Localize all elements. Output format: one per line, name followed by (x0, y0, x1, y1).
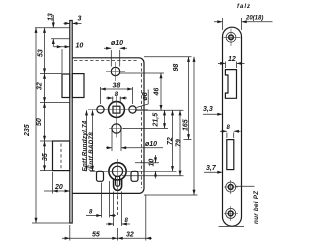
svg-text:10: 10 (76, 43, 84, 50)
follower centre lines (88, 96, 148, 134)
dimension 12 latch cutout (225, 62, 236, 69)
profile cylinder inner (112, 166, 122, 176)
svg-text:50: 50 (36, 118, 43, 126)
dimension chain line (44, 28, 46, 171)
strip top screw hole (226, 32, 236, 42)
profile cylinder outer (109, 163, 126, 180)
strip bottom hole (226, 208, 236, 218)
faceplate edge-on (front view) (70, 21, 72, 224)
extension case bottom right (144, 194, 198, 196)
deadbolt centre dashed line (60, 144, 62, 169)
fixing hole right (131, 171, 138, 181)
svg-text:79: 79 (175, 139, 182, 147)
dimension 35 (43, 141, 46, 146)
hidden edge below case top (dashed) (74, 60, 138, 62)
svg-text:32: 32 (126, 232, 134, 239)
dimension 53 (43, 28, 46, 33)
deadbolt cutout (227, 140, 234, 170)
extension top hole centre (120, 72, 164, 74)
deadbolt (protruding) (53, 141, 70, 171)
svg-text:165: 165 (182, 119, 189, 131)
svg-text:38: 38 (113, 83, 121, 90)
svg-text:235: 235 (24, 124, 31, 137)
svg-text:3: 3 (78, 16, 82, 23)
dimension 79 (179, 110, 181, 176)
cylinder centre dashed below case (117, 196, 119, 215)
strip PZ screw hole (226, 182, 236, 192)
extension latch front (61, 49, 63, 73)
dimension 50 (43, 103, 46, 108)
dimension 21,5 (164, 110, 166, 128)
extension cylinder centre to chain (117, 228, 119, 241)
dimension 10 latch protrusion (54, 46, 70, 48)
svg-text:10: 10 (149, 159, 156, 167)
svg-text:ø10: ø10 (111, 40, 123, 47)
leader nur bei PZ (236, 185, 255, 187)
lock case outline (72, 58, 144, 194)
extension deadbolt top (40, 140, 53, 142)
lower hole centre line (109, 129, 125, 138)
svg-text:98: 98 (173, 64, 180, 72)
svg-text:55: 55 (92, 232, 100, 239)
dimension 38 screw posts (101, 87, 133, 104)
extension keyway left (113, 192, 115, 227)
extension cylinder left (109, 181, 111, 218)
faceplate strip outline (223, 27, 242, 226)
dimension 8 follower square (113, 97, 120, 104)
dimension 3 faceplate thickness (64, 22, 82, 24)
svg-text:72: 72 (167, 137, 174, 145)
latch bolt housing (72, 74, 84, 98)
dimension 46 (160, 73, 162, 110)
extension keyway right (121, 192, 123, 227)
top hole Ø10 (111, 67, 119, 75)
svg-text:(Entf.BAD78: (Entf.BAD78 (88, 132, 95, 172)
hidden edge inside case right (dashed) (140, 63, 142, 188)
extension deadbolt bottom (40, 170, 53, 172)
svg-text:53: 53 (38, 49, 45, 57)
dimension 8 (right) (106, 223, 130, 225)
dimension ø10 top hole (111, 50, 119, 67)
dimension 10 cylinder offset (135, 162, 159, 164)
extension faceplate to chain (69, 225, 71, 241)
dimension 20(18) strip width (214, 21, 273, 23)
screw post right (129, 106, 136, 113)
dimension 13 (52, 15, 54, 47)
svg-text:nur bei PZ: nur bei PZ (253, 190, 260, 224)
svg-text:20: 20 (54, 184, 63, 191)
svg-text:ø8: ø8 (142, 92, 149, 100)
svg-text:12: 12 (228, 56, 236, 63)
extension line faceplate top (35, 27, 70, 29)
latch bolt (protruding) (62, 74, 70, 98)
extension y102.5 (40, 102, 70, 104)
extension deadbolt front (52, 172, 54, 194)
screw post left (97, 106, 104, 113)
dimension 165 (193, 57, 195, 195)
extension strip edges (223, 18, 242, 30)
fixing hole left (97, 171, 104, 181)
lower hole Ø10 (112, 124, 121, 133)
extension case edge to chain (145, 195, 147, 241)
dimension Entf.BAD78 (92, 110, 94, 171)
cylinder centre lines (90, 159, 177, 196)
dimension 8 deadbolt cutout (227, 133, 234, 139)
svg-text:21,5: 21,5 (152, 113, 159, 128)
dimension Entf.Rundzyl.74 (86, 110, 88, 171)
dimension 98 (188, 57, 190, 140)
dimension 20 deadbolt throw (44, 190, 70, 192)
follower square hole 8mm (113, 106, 120, 113)
extension cylinder keyway (122, 175, 184, 177)
svg-text:46: 46 (154, 88, 161, 97)
svg-text:35: 35 (42, 153, 49, 161)
extension 98 bottom (184, 139, 192, 141)
top hole centre lines (106, 62, 125, 81)
dimension ø10 lower hole (112, 131, 121, 152)
extension line 13 ref (51, 38, 70, 40)
extension latch top (40, 73, 62, 75)
svg-text:13: 13 (47, 13, 54, 21)
dimension 55 / 32 chain (62, 237, 152, 239)
dimension 32 (43, 74, 46, 79)
svg-text:32: 32 (37, 82, 44, 90)
svg-text:falz: falz (237, 4, 251, 10)
follower nut U (109, 102, 125, 118)
extension fixing hole left (101, 183, 103, 218)
dimension 72 (172, 110, 174, 171)
svg-text:20(18): 20(18) (245, 16, 263, 22)
svg-text:3,3: 3,3 (203, 106, 213, 113)
extension faceplate bottom (32, 222, 70, 224)
svg-text:3,7: 3,7 (206, 165, 217, 172)
extension follower centre right (135, 109, 184, 111)
extension case top right (144, 56, 192, 58)
dimension 8 (left) (86, 215, 116, 217)
extension lower hole centre (123, 128, 168, 130)
latch cutout (225, 70, 236, 99)
dimension 235 (35, 28, 37, 223)
svg-text:ø10: ø10 (145, 141, 157, 148)
strip bottom tangent line (219, 225, 245, 227)
